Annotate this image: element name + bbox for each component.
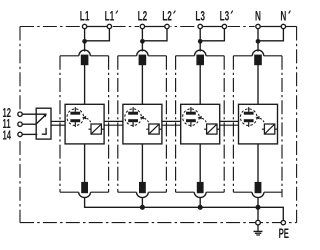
trigger circuit box diagonal module 2 — [149, 124, 159, 133]
wire from terminal L3´ down and left to node — [201, 29, 224, 41]
trigger circuit box module 2 — [149, 124, 159, 134]
terminal label L3 — [195, 9, 205, 23]
terminal PE (circle) — [281, 220, 285, 224]
trigger circuit box module 1 — [91, 124, 101, 134]
trigger path (dashed) module 3 — [202, 118, 207, 123]
wire terminal 11 to changeover contact — [22, 123, 36, 125]
mechanical linkage double line segment 1 (lower) — [51, 124, 65, 126]
trigger arrow at spark gap F4 — [255, 116, 259, 120]
plug-in module 3 enclosure, left edge — [175, 56, 177, 192]
plug-in module 4 enclosure, top edge right part — [264, 55, 282, 57]
wire from terminal N´ down and left to node — [259, 29, 283, 41]
spark gap F2 lower lead — [132, 122, 134, 127]
spark gap F3 lower electrode — [186, 119, 196, 122]
trigger box right stub module 3 — [217, 128, 220, 130]
wire bottom contact module 4 to PE bus — [257, 198, 259, 208]
mechanical linkage double line segment 1 (upper) — [51, 120, 65, 122]
spark gap F2 enclosure (dashed circle) — [125, 109, 142, 126]
wire blade to protection module 3 — [199, 65, 201, 105]
trigger box right stub module 4 — [275, 128, 278, 130]
terminal L2 (circle) — [140, 24, 144, 28]
svg-text:N: N — [255, 9, 261, 23]
spark gap F2 upper lead — [132, 107, 134, 112]
mechanical linkage double line segment 2 (lower) — [104, 124, 123, 126]
trigger box left stub module 4 — [262, 128, 265, 130]
plug-in module 1 enclosure, top edge right part — [90, 55, 108, 57]
plug-in module 2 enclosure, top edge left part — [118, 55, 137, 57]
trigger arrow at spark gap F1 — [82, 116, 86, 120]
disconnector plug blade (top) module 4 — [254, 55, 262, 66]
wire linking L1 and L1´ — [87, 26, 107, 28]
wire bottom contact module 3 to PE bus — [199, 198, 201, 208]
terminal 12 (circle) — [18, 112, 22, 116]
spark gap F4 lower lead — [248, 122, 250, 127]
plug-in module 1 enclosure, bottom edge left part — [60, 191, 79, 193]
terminal label PE — [279, 227, 289, 242]
plug-in module 1 enclosure, left edge — [59, 56, 61, 192]
junction node L1/L1´ — [82, 39, 87, 44]
spark gap F4 enclosure (dashed circle) — [240, 109, 257, 126]
terminal N´ (circle) — [281, 24, 285, 28]
terminal L3´ (circle) — [222, 24, 226, 28]
trigger circuit box module 4 — [264, 124, 274, 134]
disconnector plug blade (top) module 3 — [196, 55, 204, 66]
trigger arrow at spark gap F3 — [198, 116, 202, 120]
terminal L2´ (circle) — [165, 24, 169, 28]
junction node on PE bus module 2 — [140, 205, 145, 210]
trigger box right stub module 1 — [101, 128, 104, 130]
disconnector socket contact (bottom) module 2 — [137, 192, 149, 197]
trigger path (dashed) module 2 — [144, 118, 149, 123]
plug-in module 3 enclosure, right edge — [223, 56, 225, 192]
spark gap F4 upper electrode — [244, 112, 254, 115]
border segment terminal N´ to top right corner — [285, 26, 296, 28]
spark gap F2 lower electrode — [128, 119, 138, 122]
junction node on PE bus module 3 — [198, 205, 203, 210]
spark gap F4 upper lead — [248, 107, 250, 112]
remote signalling contact box — [36, 108, 51, 139]
wire blade to protection module 4 — [257, 65, 259, 105]
spark gap F1 upper lead — [74, 107, 76, 112]
protection module box 2 — [123, 104, 162, 144]
svg-text:PE: PE — [279, 227, 289, 242]
wire from terminal L1 down to node — [84, 29, 86, 52]
plug-in module 4 enclosure, right edge — [281, 56, 283, 192]
wire protection module 1 to bottom blade — [84, 144, 86, 182]
disconnector socket contact (bottom) module 1 — [79, 192, 91, 197]
spark gap F1 upper electrode — [70, 112, 80, 115]
plug-in module 2 enclosure, bottom edge left part — [118, 191, 137, 193]
svg-text:L3: L3 — [220, 9, 230, 23]
plug-in module 1 enclosure, bottom edge right part — [91, 191, 109, 193]
trigger box right stub module 2 — [159, 128, 162, 130]
terminal L1´ (circle) — [107, 24, 111, 28]
trigger circuit box diagonal module 4 — [265, 124, 275, 133]
plug-in module 4 enclosure, bottom edge right part — [264, 191, 282, 193]
spark gap F1 lower electrode — [70, 119, 80, 122]
svg-text:L2: L2 — [162, 9, 172, 23]
mechanical linkage double line segment 3 (upper) — [162, 120, 181, 122]
junction node N/N´ — [256, 39, 261, 44]
disconnector socket contact (top) module 3 — [195, 50, 206, 56]
svg-text:14: 14 — [3, 128, 12, 143]
device outline border (dash-dot), top edge — [20, 26, 297, 28]
changeover contact 14 fixed contact hook — [42, 128, 46, 134]
mechanical linkage double line segment 4 (upper) — [220, 120, 239, 122]
plug-in module 2 enclosure, bottom edge right part — [148, 191, 166, 193]
wire terminal 12 to changeover contact — [22, 113, 46, 115]
wire terminal 14 to changeover contact — [22, 133, 37, 135]
plug-in module 4 enclosure, top edge left part — [233, 55, 252, 57]
protection module box 1 — [65, 104, 104, 144]
device outline border, bottom edge — [20, 222, 297, 224]
wire from terminal L2´ down and left to node — [143, 29, 167, 41]
svg-text:N: N — [280, 9, 286, 23]
device outline border, right edge — [296, 27, 298, 223]
svg-text:L3: L3 — [195, 9, 205, 23]
terminal label L2´ — [162, 9, 175, 23]
wire from terminal L1´ down and left to node — [86, 29, 110, 41]
wire blade to protection module 1 — [84, 65, 86, 105]
disconnector plug blade (bottom) module 4 — [255, 182, 262, 193]
earthing terminal (circle) — [256, 220, 261, 225]
earth symbol bar 1 — [254, 231, 263, 232]
trigger path (dashed) module 1 — [86, 118, 91, 123]
junction node on PE bus module 4 — [255, 205, 260, 210]
spark gap F1 enclosure (dashed circle) — [67, 109, 84, 126]
plug-in module 2 enclosure, right edge — [165, 56, 167, 192]
terminal label 14 — [3, 128, 12, 143]
terminal L3 (circle) — [198, 24, 202, 28]
spark gap F1 lower lead — [74, 122, 76, 127]
terminal 14 (circle) — [18, 132, 22, 136]
terminal label L1 — [80, 9, 90, 23]
junction node L2/L2´ — [140, 39, 145, 44]
svg-text:L1: L1 — [105, 9, 115, 23]
terminal label L1´ — [105, 9, 118, 23]
disconnector plug blade (bottom) module 2 — [139, 182, 146, 193]
svg-text:L2: L2 — [138, 9, 148, 23]
trigger box left stub module 1 — [89, 128, 92, 130]
plug-in module 1 enclosure, right edge — [108, 56, 110, 192]
stub below module 4 enclosure corner — [281, 192, 283, 197]
wire linking L3 and L3´ — [202, 26, 222, 28]
spark gap F3 lower lead — [190, 122, 192, 127]
terminal N (circle) — [256, 24, 260, 28]
wire blade to protection module 2 — [141, 65, 143, 105]
trigger path (dashed) module 4 — [260, 118, 265, 123]
terminal label N — [255, 9, 261, 23]
white gaps in border at terminals — [19, 23, 287, 138]
plug-in module 3 enclosure, top edge left part — [176, 55, 195, 57]
disconnector socket contact (bottom) module 4 — [252, 192, 264, 197]
plug-in module 3 enclosure, bottom edge left part — [176, 191, 195, 193]
mechanical linkage double line segment 3 (lower) — [162, 124, 181, 126]
terminal 11 (circle) — [18, 122, 22, 126]
wire PE bus to earthing terminal — [257, 207, 259, 220]
disconnector plug blade (bottom) module 1 — [81, 182, 88, 193]
wire from terminal L2 down to node — [141, 29, 143, 52]
trigger box left stub module 3 — [204, 128, 207, 130]
spark gap F3 upper electrode — [186, 112, 196, 115]
disconnector plug blade (top) module 2 — [139, 55, 147, 66]
PE bus wire from module 1 down and along bottom to PE terminal — [85, 198, 284, 221]
device outline border, left edge — [19, 27, 21, 223]
plug-in module 4 enclosure, left edge — [232, 56, 234, 192]
spark gap F3 enclosure (dashed circle) — [183, 109, 200, 126]
terminal label N´ — [280, 9, 290, 23]
disconnector plug blade (bottom) module 3 — [197, 182, 204, 193]
spark gap F3 upper lead — [190, 107, 192, 112]
earth symbol bar 3 — [256, 234, 260, 235]
svg-text:L1: L1 — [80, 9, 90, 23]
trigger circuit box diagonal module 3 — [207, 124, 217, 133]
earth symbol bar 2 — [255, 233, 261, 234]
trigger box left stub module 2 — [146, 128, 149, 130]
earth symbol stem — [257, 225, 259, 231]
wire protection module 2 to bottom blade — [141, 144, 143, 182]
plug-in module 2 enclosure, left edge — [117, 56, 119, 192]
plug-in module 1 enclosure, top edge left part — [60, 55, 79, 57]
spark gap F2 upper electrode — [128, 112, 138, 115]
spark gap F4 lower electrode — [244, 119, 254, 122]
trigger arrow at spark gap F2 — [140, 116, 144, 120]
plug-in module 4 enclosure, bottom edge left part — [233, 191, 252, 193]
plug-in module 3 enclosure, top edge right part — [206, 55, 224, 57]
mechanical linkage double line segment 4 (lower) — [220, 124, 239, 126]
disconnector socket contact (top) module 2 — [137, 50, 148, 56]
disconnector plug blade (top) module 1 — [81, 55, 89, 66]
terminal L1 (circle) — [82, 24, 86, 28]
disconnector socket contact (top) module 4 — [252, 50, 263, 56]
plug-in module 3 enclosure, bottom edge right part — [206, 191, 224, 193]
wire from terminal L3 down to node — [199, 29, 201, 52]
terminal label L2 — [138, 9, 148, 23]
wire from terminal N down to node — [257, 29, 259, 52]
wire protection module 4 to bottom blade — [257, 144, 259, 182]
changeover contact arm with arrow (11-12 closed) — [36, 114, 47, 124]
wire linking L2 and L2´ — [145, 26, 165, 28]
trigger circuit box module 3 — [207, 124, 217, 134]
trigger circuit box diagonal module 1 — [91, 124, 101, 133]
terminal label 11 — [3, 117, 11, 132]
wire linking N and N´ — [260, 26, 281, 28]
terminal label 12 — [3, 106, 12, 121]
wire bottom contact module 2 to PE bus — [141, 198, 143, 208]
disconnector socket contact (top) module 1 — [79, 50, 90, 56]
terminal label L3´ — [220, 9, 233, 23]
wire protection module 3 to bottom blade — [199, 144, 201, 182]
mechanical linkage double line segment 2 (upper) — [104, 120, 123, 122]
protection module box 3 — [181, 104, 220, 144]
protection module box 4 — [239, 104, 278, 144]
disconnector socket contact (bottom) module 3 — [194, 192, 206, 197]
plug-in module 2 enclosure, top edge right part — [148, 55, 166, 57]
junction node L3/L3´ — [198, 39, 203, 44]
